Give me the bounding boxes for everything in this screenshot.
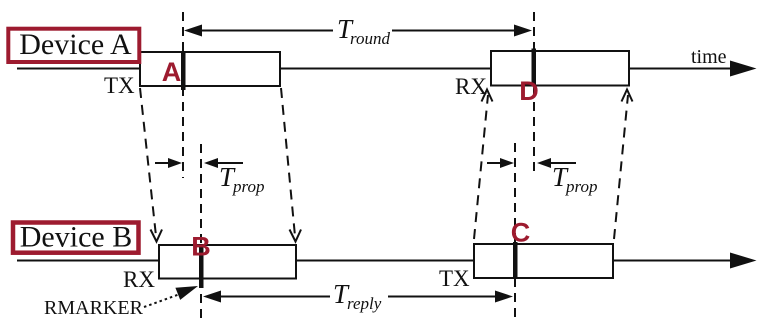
svg-text:time: time [691, 46, 727, 68]
svg-text:D: D [519, 76, 539, 106]
svg-text:prop: prop [232, 177, 265, 196]
svg-text:RMARKER: RMARKER [44, 297, 144, 319]
svg-text:RX: RX [455, 74, 487, 99]
svg-text:reply: reply [347, 294, 382, 313]
svg-text:B: B [191, 232, 211, 262]
svg-text:C: C [511, 218, 531, 248]
svg-text:TX: TX [104, 73, 135, 98]
svg-text:RX: RX [123, 267, 155, 292]
svg-text:prop: prop [565, 177, 598, 196]
svg-text:TX: TX [439, 266, 470, 291]
svg-text:Device A: Device A [19, 28, 132, 61]
svg-text:Device B: Device B [20, 221, 132, 254]
svg-text:A: A [162, 57, 182, 87]
svg-text:round: round [350, 29, 390, 48]
